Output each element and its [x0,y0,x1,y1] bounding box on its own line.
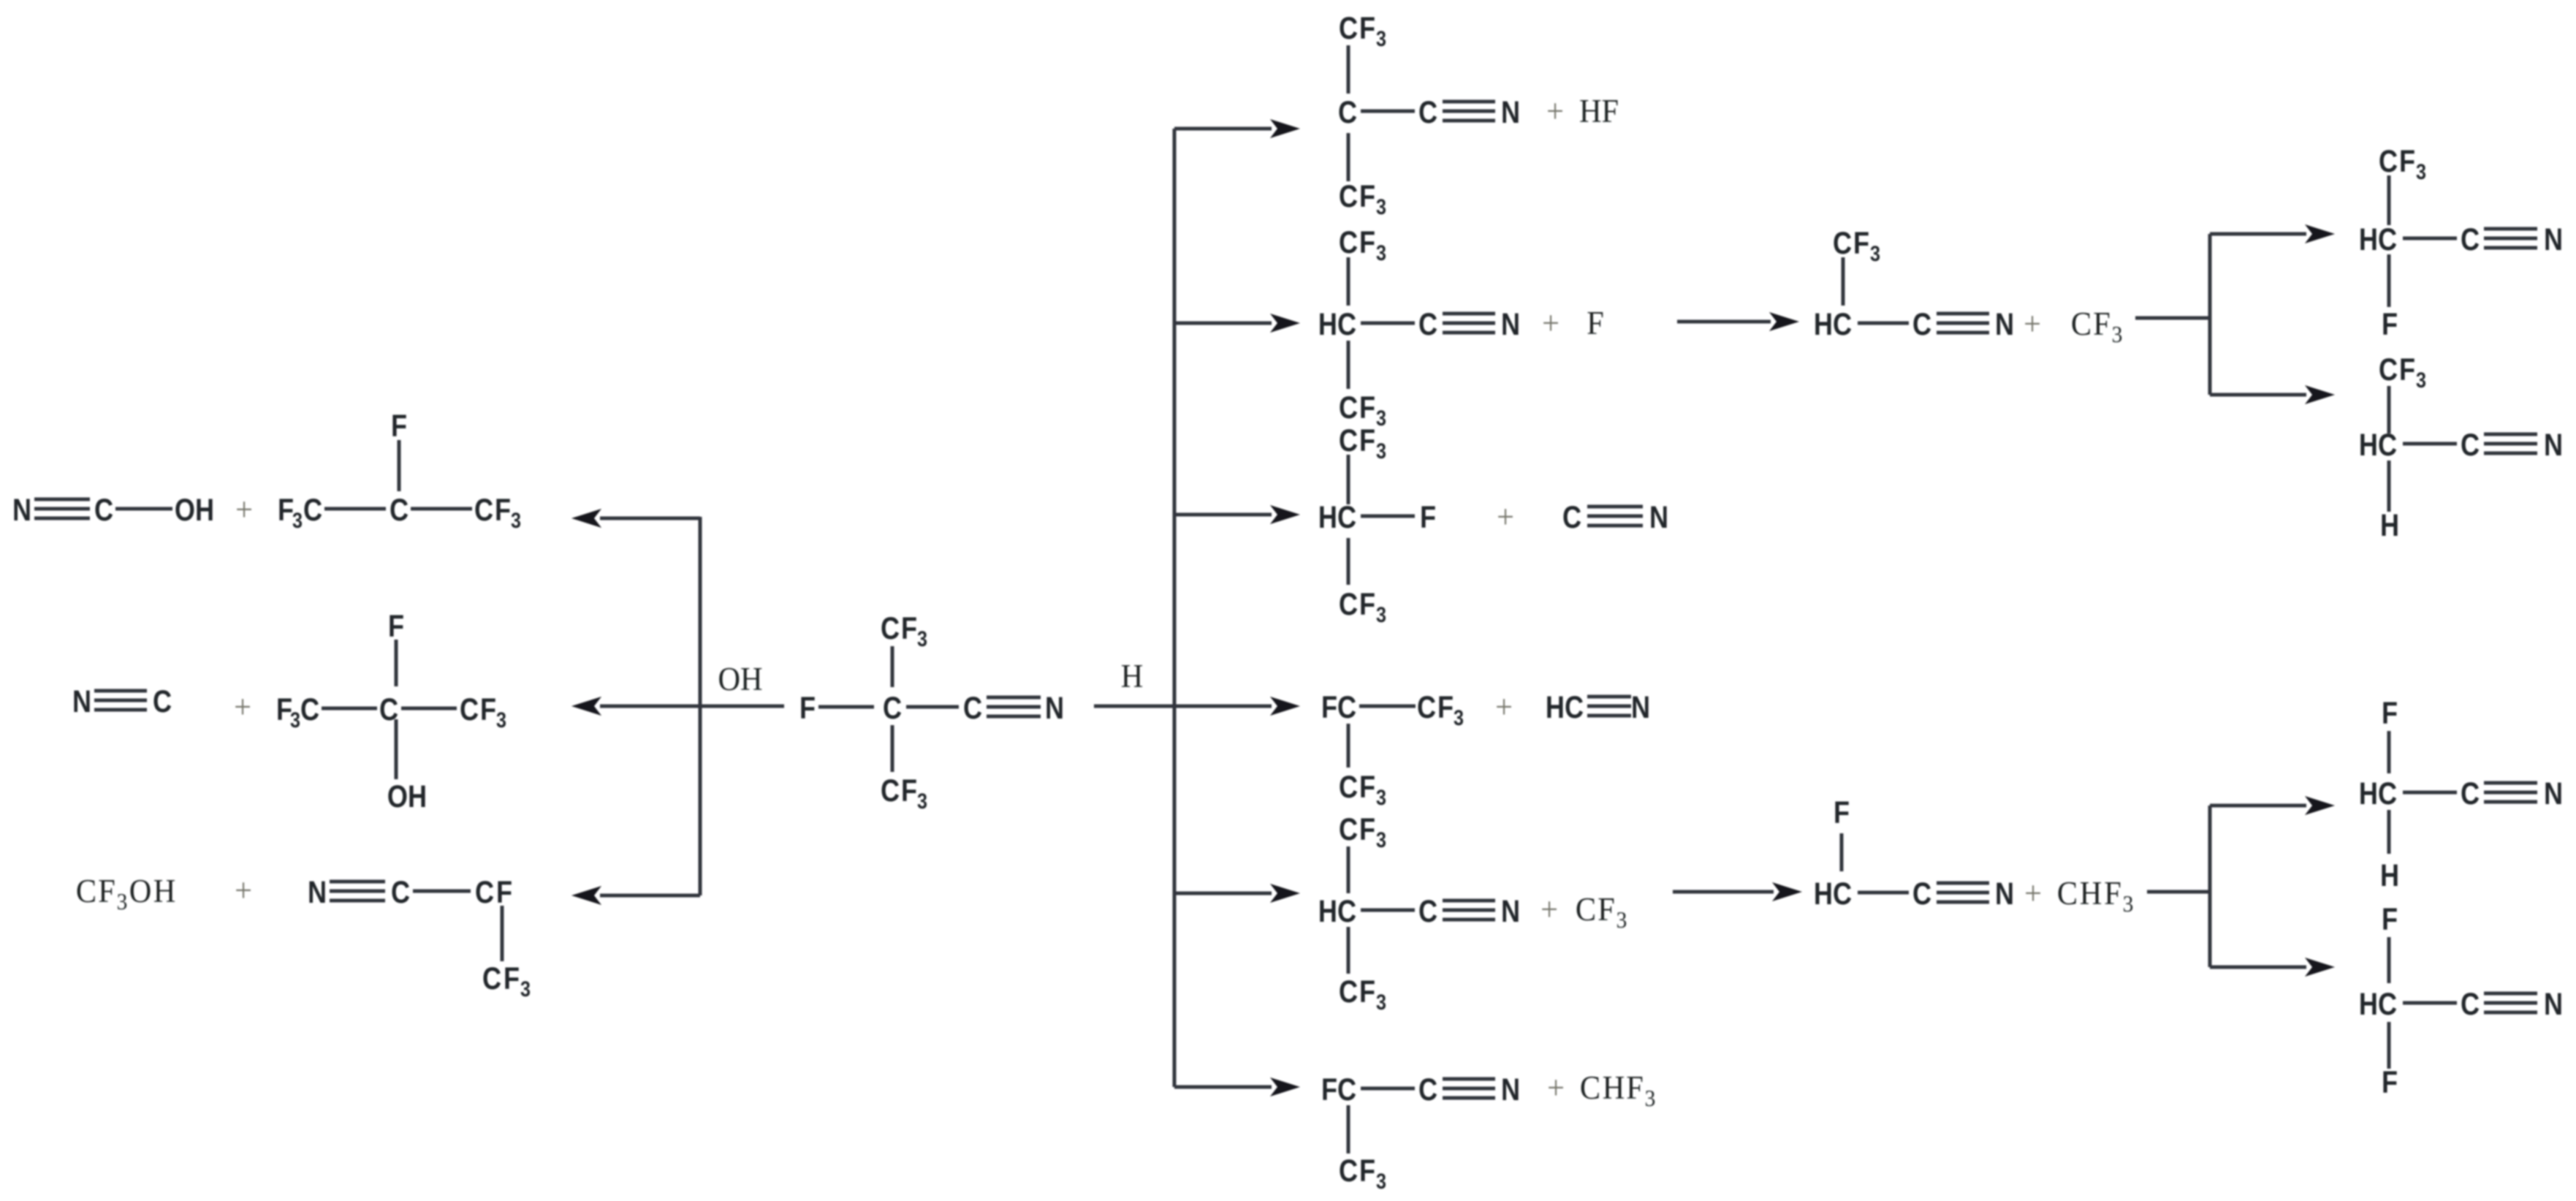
svg-text:H: H [2380,858,2399,893]
svg-text:3: 3 [520,977,531,1001]
svg-text:C: C [153,684,172,719]
triple bond C#N (central) [987,696,1041,700]
svg-text:N: N [1501,894,1520,929]
svg-text:N: N [1995,876,2014,912]
bond FC-C (branch6) [1361,1087,1415,1091]
bond HC-C (S3) [2403,791,2457,795]
svg-text:HC: HC [1814,307,1852,342]
svg-text:N: N [2544,776,2563,811]
svg-text:OH: OH [387,779,427,814]
svg-text:F: F [388,609,404,644]
connector line CF3 to split (row2) [2135,317,2210,320]
svg-text:HC: HC [2359,776,2397,811]
svg-text:N: N [1995,307,2014,342]
branch arrow 1 [1174,127,1272,131]
svg-text:F: F [496,875,512,910]
svg-text:C: C [1339,179,1358,214]
bond F-HC vertical (row5) [1840,833,1844,871]
svg-text:N: N [308,875,327,910]
branch arrow 4 from central molecule [1094,705,1272,708]
bond F3C-C (group B2) [322,707,377,711]
svg-text:3: 3 [1376,240,1386,265]
svg-text:C: C [2379,352,2398,387]
triple bond C#N (S3) [2484,781,2537,785]
svg-text:H: H [1121,657,1144,694]
svg-text:F: F [1597,890,1615,928]
svg-text:C: C [1339,974,1358,1009]
svg-text:C: C [1338,95,1357,130]
bond F-HC vertical (S3) [2387,731,2391,773]
svg-text:N: N [12,493,31,528]
svg-text:C: C [1339,225,1358,260]
svg-text:3: 3 [1376,439,1386,463]
svg-text:+: + [1542,304,1559,341]
svg-text:+: + [2024,305,2041,342]
svg-text:N: N [1045,691,1064,726]
bond F-HC vertical (S4) [2387,937,2391,983]
svg-text:F: F [1853,226,1869,261]
bond HC-CF3 vertical below (branch5) [1347,927,1350,974]
svg-text:F: F [2399,352,2415,387]
svg-text:3: 3 [1376,194,1386,219]
branch arrow 5 [1174,892,1272,895]
svg-text:F: F [2382,696,2398,731]
svg-text:N: N [1501,95,1520,130]
svg-text:3: 3 [1454,705,1464,730]
split arrow top (row2) [2210,232,2306,236]
triple bond C#N (branch5) [1443,899,1495,903]
svg-text:F: F [2104,874,2121,912]
svg-text:3: 3 [117,889,128,914]
svg-text:C: C [1339,1153,1358,1189]
svg-text:HC: HC [1814,876,1852,912]
svg-text:F: F [1359,770,1375,805]
svg-text:C: C [391,875,410,910]
svg-text:3: 3 [496,708,506,732]
svg-text:3: 3 [2123,891,2134,917]
svg-text:C: C [1562,500,1581,535]
triple bond C#N (S2) [2484,433,2537,436]
bond CF3-HC vertical (branch5) [1347,846,1350,893]
bond HC-CF3 vertical below (branch2) [1347,341,1350,389]
branch arrow 6 [1174,1086,1272,1089]
bond C-CF3 vertical below (central) [891,725,894,772]
svg-text:H: H [153,872,176,909]
svg-text:OH: OH [175,493,214,528]
svg-text:HC: HC [2359,222,2397,257]
bond F3C-C (group A2) [324,507,386,511]
svg-text:F: F [1359,423,1375,458]
svg-text:F: F [1359,11,1375,46]
bond C-OH (group A) [115,507,172,511]
svg-text:N: N [2544,222,2563,257]
svg-text:C: C [1417,690,1436,725]
split arrow top (row5) [2210,804,2306,808]
svg-text:+: + [1497,498,1514,535]
svg-text:C: C [1418,1072,1437,1107]
bond HC-F vertical (S4) [2387,1022,2391,1069]
svg-text:3: 3 [1870,241,1880,266]
long arrow after branch5 [1673,890,1774,894]
triple bond C#N (branch4b) [1587,695,1631,699]
svg-text:HC: HC [1546,690,1584,725]
svg-text:C: C [1418,307,1437,342]
bond HC-C (S1) [2403,237,2457,240]
svg-text:F: F [901,773,917,808]
svg-text:C: C [2461,428,2480,463]
svg-text:3: 3 [1616,907,1627,933]
triple bond N#C (group C2) [330,880,385,884]
triple bond N#C (group A) [34,498,90,501]
long arrow after branch2 [1677,320,1771,324]
svg-text:C: C [475,875,494,910]
bond C-CF3 vertical below (branch1) [1347,133,1350,181]
svg-text:OH: OH [718,660,762,697]
svg-text:F: F [480,692,496,727]
bond FC-CF3 (branch4) [1359,705,1416,708]
svg-text:F: F [278,493,294,528]
bond CF3-HC vertical (branch3) [1347,455,1350,504]
svg-text:3: 3 [1376,990,1386,1015]
bond CF3-HC vertical (row2) [1842,257,1845,306]
svg-text:H: H [1603,1069,1625,1106]
svg-text:3: 3 [1376,406,1386,431]
svg-text:C: C [963,691,982,726]
arrow to group A [600,517,700,520]
svg-text:F: F [98,872,115,909]
svg-text:C: C [390,493,409,528]
split arrow bottom (row5) [2210,966,2306,969]
triple bond C#N (row2) [1937,312,1989,316]
svg-text:3: 3 [2416,159,2426,184]
bond HC-H vertical (S2) [2387,461,2391,512]
svg-text:F: F [391,409,407,444]
svg-text:C: C [1580,1069,1600,1106]
bond C-OH vertical (group B2) [395,719,398,779]
svg-text:+: + [2024,874,2042,912]
svg-text:3: 3 [1376,26,1386,51]
bond HC-C (S2) [2403,442,2457,446]
svg-text:F: F [2382,1065,2398,1100]
svg-text:F: F [504,961,520,996]
svg-text:C: C [76,872,96,909]
split vertical line (row5) [2208,806,2212,967]
svg-text:F: F [799,691,816,726]
svg-text:3: 3 [1376,827,1386,852]
svg-text:C: C [1833,226,1852,261]
svg-text:+: + [234,688,251,725]
svg-text:F: F [2382,902,2398,937]
svg-text:F: F [1359,390,1375,425]
svg-text:C: C [2071,305,2091,342]
svg-text:3: 3 [511,508,521,533]
svg-text:+: + [1547,1069,1565,1106]
svg-text:F: F [1626,1069,1644,1106]
svg-text:3: 3 [917,626,927,651]
svg-text:+: + [1546,92,1564,129]
svg-text:C: C [1339,587,1358,622]
svg-text:F: F [1359,179,1375,214]
svg-text:3: 3 [290,708,300,732]
svg-text:+: + [1495,688,1513,725]
svg-text:F: F [1437,690,1454,725]
svg-text:N: N [1501,307,1520,342]
svg-text:N: N [72,684,91,719]
svg-text:HC: HC [2359,428,2397,463]
bond HC-C (row2) [1858,322,1909,325]
svg-text:F: F [1359,974,1375,1009]
svg-text:C: C [881,611,900,646]
svg-text:C: C [94,493,113,528]
svg-text:FC: FC [1321,1072,1356,1107]
left branch vertical line [699,517,702,895]
triple bond C#N (branch6) [1443,1077,1495,1081]
bond C-C (branch1) [1361,110,1415,113]
svg-text:HC: HC [1318,500,1356,535]
svg-text:3: 3 [917,789,927,814]
svg-text:3: 3 [1376,785,1386,810]
svg-text:C: C [2057,874,2078,912]
svg-text:F: F [1359,812,1375,847]
svg-text:F: F [1359,1153,1375,1189]
svg-text:N: N [1631,690,1650,725]
svg-text:+: + [235,490,253,528]
svg-text:F: F [2399,144,2415,179]
svg-text:C: C [2461,776,2480,811]
svg-text:C: C [1912,307,1931,342]
triple bond C#N (S1) [2484,227,2537,231]
triple bond C#N (branch1) [1443,100,1495,104]
svg-text:+: + [1540,890,1558,928]
bond FC-CF3 vertical below (branch6) [1347,1105,1350,1153]
split vertical line (row2) [2208,234,2212,395]
bond HC-F (branch3) [1361,515,1415,518]
svg-text:C: C [1912,876,1931,912]
svg-text:F: F [1420,500,1436,535]
bond HC-H vertical (S3) [2387,810,2391,854]
svg-text:C: C [2379,144,2398,179]
bond HC-F vertical (S1) [2387,254,2391,307]
triple bond C#N (S4) [2484,992,2537,996]
bond CF3-HC vertical (S2) [2387,386,2391,433]
bond HC-C (S4) [2403,1001,2457,1005]
triple bond C#N (branch3b) [1587,505,1643,509]
svg-text:N: N [2544,428,2563,463]
svg-text:C: C [1339,11,1358,46]
svg-text:3: 3 [2416,368,2426,393]
svg-text:HC: HC [1318,307,1356,342]
branch arrow 2 [1174,322,1272,325]
svg-text:F: F [2093,305,2110,342]
bond F-C vertical (group B2) [395,640,398,686]
svg-text:C: C [881,773,900,808]
svg-text:HC: HC [1318,894,1356,929]
svg-text:C: C [482,961,501,996]
svg-text:F: F [1359,587,1375,622]
svg-text:C: C [2461,987,2480,1022]
svg-text:3: 3 [1376,1169,1386,1194]
bond HC-C (row5) [1858,891,1909,895]
svg-text:C: C [883,691,902,726]
svg-text:C: C [303,493,322,528]
svg-text:F: F [495,493,511,528]
svg-text:C: C [474,493,493,528]
branch arrow 3 [1174,513,1272,517]
svg-text:F: F [1834,795,1850,830]
svg-text:F: F [2382,307,2398,342]
bond CF3-HC vertical (branch2) [1347,257,1350,306]
bond HC-CF3 vertical below (branch3) [1347,538,1350,585]
svg-text:C: C [1339,812,1358,847]
bond C-C (central) [906,705,959,709]
bond CF3-C vertical (branch1) [1347,45,1350,94]
svg-text:FC: FC [1321,690,1356,725]
triple bond C#N (branch2) [1443,312,1495,316]
connector line CHF3 to split (row5) [2147,890,2210,894]
bond C-CF3 (group A2) [411,507,472,511]
bond C-CF (group C2) [413,890,471,893]
svg-text:C: C [1339,423,1358,458]
svg-text:3: 3 [2112,322,2123,347]
svg-text:C: C [460,692,479,727]
bond HC-C (branch5) [1361,909,1415,912]
bond C-CF3 (group B2) [401,707,457,711]
svg-text:O: O [129,872,152,909]
bond CF3-HC vertical (S1) [2387,175,2391,225]
svg-text:3: 3 [1376,602,1386,627]
svg-text:C: C [1339,390,1358,425]
svg-text:F: F [1359,225,1375,260]
right branch vertical line [1173,129,1177,1087]
svg-text:C: C [300,692,319,727]
svg-text:C: C [1418,894,1437,929]
svg-text:N: N [1649,500,1668,535]
svg-text:H: H [2080,874,2102,912]
svg-text:3: 3 [292,508,303,533]
triple bond N#C (group B) [94,689,147,693]
svg-text:+: + [235,871,252,909]
svg-text:C: C [1418,95,1437,130]
svg-text:C: C [1339,770,1358,805]
triple bond C#N (row5) [1937,882,1989,885]
svg-text:H: H [2380,508,2399,543]
svg-text:C: C [2461,222,2480,257]
svg-text:N: N [2544,987,2563,1022]
svg-text:F: F [1587,304,1604,341]
svg-text:F: F [901,611,917,646]
svg-text:3: 3 [1645,1086,1656,1111]
svg-text:HC: HC [2359,987,2397,1022]
bond F-C vertical (group A2) [398,440,401,491]
bond CF3-C vertical above (central) [891,646,894,687]
line from central molecule to left branch [601,705,784,708]
bond F-C (central) [818,705,874,709]
bond HC-C (branch2) [1361,322,1415,325]
split arrow bottom (row2) [2210,393,2306,397]
arrow to group B [600,705,700,708]
arrow to group C [600,894,700,898]
svg-text:HF: HF [1579,92,1619,129]
bond CF-CF3 vertical (group C2) [501,906,504,961]
svg-text:N: N [1501,1072,1520,1107]
svg-text:C: C [1576,890,1596,928]
bond FC-CF3 vertical below (branch4) [1347,724,1350,768]
